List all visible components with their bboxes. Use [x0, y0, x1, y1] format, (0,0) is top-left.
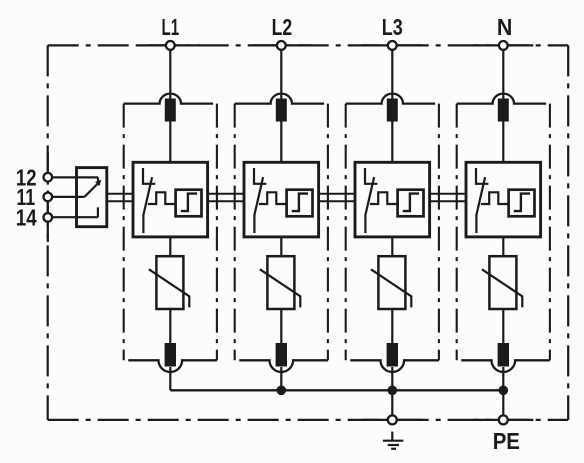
svg-text:L3: L3	[382, 14, 403, 40]
svg-text:14: 14	[16, 205, 37, 231]
svg-text:L1: L1	[162, 14, 180, 40]
svg-text:L2: L2	[272, 14, 293, 40]
svg-text:N: N	[497, 14, 513, 40]
svg-text:PE: PE	[493, 428, 520, 454]
